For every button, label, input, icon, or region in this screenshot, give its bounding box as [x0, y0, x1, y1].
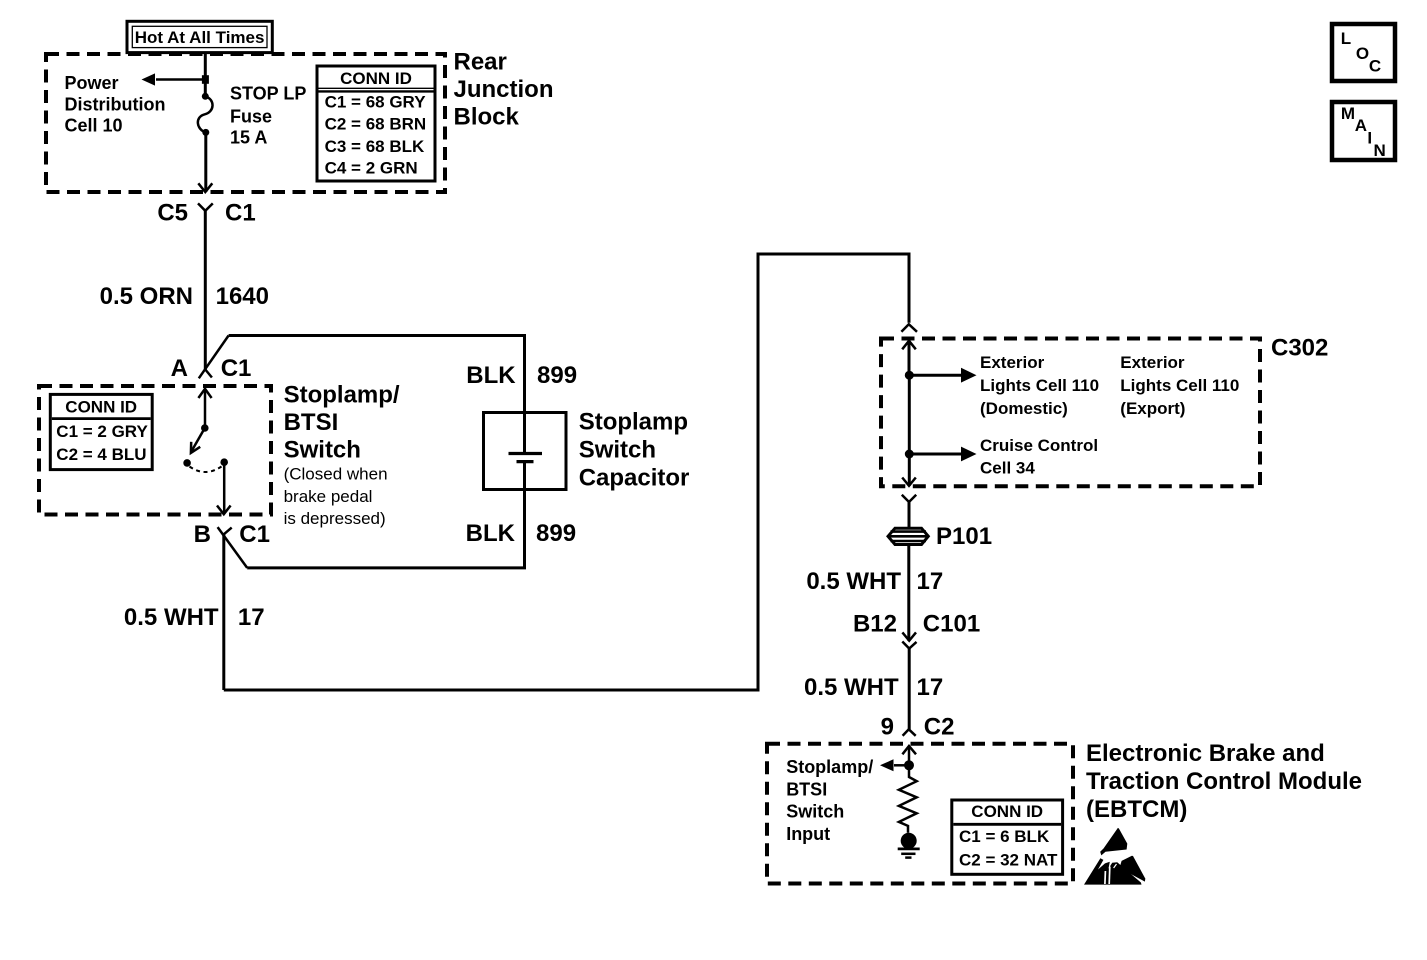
- switch pivot contact: [201, 424, 209, 432]
- wire from Hot At All Times to fuse: [204, 52, 207, 96]
- svg-text:Switch: Switch: [284, 437, 361, 464]
- svg-text:C101: C101: [923, 611, 980, 638]
- label C5: [157, 199, 188, 226]
- Stoplamp/BTSI Switch dashed box: [39, 386, 271, 515]
- svg-text:Stoplamp: Stoplamp: [579, 409, 688, 436]
- wire to C302 bottom with arrow: [902, 454, 916, 486]
- svg-text:M: M: [1341, 104, 1355, 123]
- node junction dot EBTCM: [904, 760, 914, 770]
- label 9: [881, 713, 894, 740]
- svg-text:brake pedal: brake pedal: [284, 487, 373, 506]
- Stoplamp Switch Capacitor label: [579, 409, 690, 492]
- CONN ID table switch: [50, 394, 152, 469]
- wire C101 to EBTCM: [908, 649, 911, 730]
- svg-text:Capacitor: Capacitor: [579, 465, 690, 492]
- wire label 0.5 ORN 1640: [100, 283, 269, 310]
- wire B down, circuit 17: [222, 534, 225, 690]
- STOP LP Fuse 15 A label: [230, 84, 306, 148]
- svg-text:15 A: 15 A: [230, 128, 267, 148]
- svg-text:Stoplamp/: Stoplamp/: [786, 757, 873, 777]
- svg-text:899: 899: [537, 362, 577, 389]
- wire branch to capacitor top: [229, 336, 525, 453]
- svg-text:9: 9: [881, 713, 894, 740]
- connector B12/C101 symbol: [902, 632, 916, 648]
- svg-text:C: C: [1369, 57, 1381, 76]
- fuse STOP LP 15 A: [198, 93, 213, 136]
- svg-text:BTSI: BTSI: [786, 779, 827, 799]
- svg-text:BLK: BLK: [466, 520, 516, 547]
- svg-text:BTSI: BTSI: [284, 409, 339, 436]
- label C1: [225, 199, 256, 226]
- svg-text:Lights Cell 110: Lights Cell 110: [1120, 376, 1239, 395]
- grommet P101: [888, 528, 928, 544]
- Rear Junction Block label: [454, 49, 554, 131]
- svg-text:C3 = 68 BLK: C3 = 68 BLK: [325, 137, 425, 156]
- label C2: [924, 713, 955, 740]
- svg-text:Cell 10: Cell 10: [65, 116, 123, 136]
- svg-text:I: I: [1367, 129, 1372, 148]
- node junction to Power Distribution: [202, 75, 209, 84]
- MAIN reference box: [1332, 102, 1395, 160]
- svg-text:C2 = 4 BLU: C2 = 4 BLU: [56, 445, 146, 464]
- Stoplamp/BTSI Switch label: [284, 382, 400, 464]
- wire bottom run to C302: [224, 254, 909, 690]
- svg-text:Exterior: Exterior: [1120, 353, 1185, 372]
- svg-text:(Domestic): (Domestic): [980, 399, 1068, 418]
- svg-text:1640: 1640: [216, 283, 269, 310]
- svg-text:Rear: Rear: [454, 49, 507, 76]
- switch travel dashed arc: [190, 467, 222, 473]
- svg-text:C1 = 6 BLK: C1 = 6 BLK: [959, 827, 1050, 846]
- node junction dot 2: [905, 450, 914, 459]
- svg-text:STOP LP: STOP LP: [230, 84, 306, 104]
- svg-text:0.5 WHT: 0.5 WHT: [124, 604, 219, 631]
- svg-text:CONN ID: CONN ID: [340, 69, 412, 88]
- Exterior Lights Domestic label: [980, 353, 1099, 418]
- svg-text:Hot At All Times: Hot At All Times: [135, 28, 265, 47]
- wire label BLK 899 lower: [466, 520, 576, 547]
- svg-text:0.5 WHT: 0.5 WHT: [804, 674, 899, 701]
- Cruise Control label: [980, 436, 1098, 478]
- label C302: [1271, 335, 1328, 362]
- svg-text:Input: Input: [786, 824, 830, 844]
- svg-text:(Closed when: (Closed when: [284, 465, 388, 484]
- connector C5/C1 Y symbol: [198, 203, 213, 210]
- arrow into EBTCM: [902, 746, 916, 765]
- connector B/C1 symbol: [218, 527, 248, 568]
- arrow to Exterior Lights: [909, 368, 976, 383]
- node Hot At All Times box: [127, 21, 272, 52]
- svg-text:N: N: [1374, 141, 1386, 160]
- wire P101 to C101: [907, 545, 910, 641]
- svg-text:BLK: BLK: [466, 362, 516, 389]
- svg-text:CONN ID: CONN ID: [65, 398, 137, 417]
- svg-text:17: 17: [238, 604, 265, 631]
- svg-text:Traction Control Module: Traction Control Module: [1086, 768, 1362, 795]
- svg-text:B: B: [194, 521, 211, 548]
- svg-text:CONN ID: CONN ID: [971, 802, 1043, 821]
- resistor pull-up: [899, 765, 917, 833]
- arrow into C302: [902, 341, 916, 375]
- svg-text:Block: Block: [454, 104, 520, 131]
- svg-text:C1 = 2 GRY: C1 = 2 GRY: [56, 422, 148, 441]
- svg-text:Switch: Switch: [579, 437, 656, 464]
- svg-text:C1: C1: [239, 521, 270, 548]
- svg-text:A: A: [171, 355, 188, 382]
- label B: [194, 521, 211, 548]
- connector Y below C302: [902, 495, 916, 528]
- svg-text:C1: C1: [225, 199, 256, 226]
- switch blade with arrow: [191, 428, 205, 453]
- svg-text:17: 17: [917, 568, 944, 595]
- svg-text:Electronic Brake and: Electronic Brake and: [1086, 740, 1325, 767]
- svg-text:Distribution: Distribution: [65, 94, 166, 114]
- svg-text:C302: C302: [1271, 335, 1328, 362]
- label C101: [923, 611, 980, 638]
- EBTCM dashed box: [767, 744, 1073, 884]
- wire between dots: [908, 375, 911, 454]
- connector A/C1 symbol: [199, 336, 229, 379]
- capacitor C plates: [509, 454, 543, 462]
- ESD sensitive symbol: [1084, 828, 1145, 885]
- svg-text:Lights Cell 110: Lights Cell 110: [980, 376, 1099, 395]
- svg-text:(EBTCM): (EBTCM): [1086, 796, 1187, 823]
- wire label 0.5 WHT 17 left: [124, 604, 265, 631]
- svg-text:P101: P101: [936, 523, 992, 550]
- svg-text:C1 = 68 GRY: C1 = 68 GRY: [325, 92, 427, 111]
- svg-text:Junction: Junction: [454, 76, 554, 103]
- svg-text:Power: Power: [65, 73, 119, 93]
- CONN ID table Rear Junction Block: [317, 66, 435, 181]
- Rear Junction Block dashed box: [46, 54, 445, 192]
- wire label 0.5 WHT 17 right lower: [804, 674, 943, 701]
- svg-text:17: 17: [917, 674, 944, 701]
- switch output wire with arrow: [217, 462, 231, 514]
- svg-text:Fuse: Fuse: [230, 107, 272, 127]
- capacitor box: [484, 413, 567, 490]
- svg-text:Exterior: Exterior: [980, 353, 1045, 372]
- svg-text:C2: C2: [924, 713, 955, 740]
- label P101: [936, 523, 992, 550]
- arrow to Power Distribution Cell 10: [142, 73, 206, 85]
- svg-text:Cell 34: Cell 34: [980, 459, 1035, 478]
- C302 dashed box: [881, 339, 1260, 487]
- closed-when note: [284, 465, 388, 529]
- ground symbol: [898, 849, 920, 858]
- Exterior Lights Export label: [1120, 353, 1239, 418]
- connector chevron at C302: [901, 324, 917, 332]
- wire fuse to C5 with arrow: [198, 132, 212, 192]
- svg-text:A: A: [1355, 116, 1367, 135]
- svg-text:(Export): (Export): [1120, 399, 1185, 418]
- arrow to Cruise Control: [909, 447, 976, 462]
- node junction dot 1: [905, 371, 914, 380]
- label A: [171, 355, 188, 382]
- svg-text:899: 899: [536, 520, 576, 547]
- switch right contact: [220, 458, 228, 466]
- svg-text:Stoplamp/: Stoplamp/: [284, 382, 400, 409]
- svg-text:C4 = 2 GRN: C4 = 2 GRN: [325, 159, 418, 178]
- label C1 at B: [239, 521, 270, 548]
- svg-text:Switch: Switch: [786, 802, 844, 822]
- connector 9/C2 symbol: [903, 729, 916, 736]
- svg-text:B12: B12: [853, 611, 897, 638]
- svg-text:C2 = 68 BRN: C2 = 68 BRN: [325, 115, 427, 134]
- svg-text:0.5 WHT: 0.5 WHT: [806, 568, 901, 595]
- svg-text:C1: C1: [221, 355, 252, 382]
- svg-text:C5: C5: [157, 199, 188, 226]
- wire label BLK 899 upper: [466, 362, 577, 389]
- CONN ID table EBTCM: [952, 800, 1063, 874]
- svg-text:0.5 ORN: 0.5 ORN: [100, 283, 193, 310]
- switch input arrow: [198, 389, 211, 428]
- Power Distribution Cell 10 label: [65, 73, 166, 136]
- switch left contact: [183, 459, 191, 467]
- label B12: [853, 611, 897, 638]
- EBTCM label: [1086, 740, 1362, 823]
- svg-text:Cruise Control: Cruise Control: [980, 436, 1098, 455]
- ground ball: [901, 833, 917, 849]
- svg-text:C2 = 32 NAT: C2 = 32 NAT: [959, 850, 1058, 869]
- wire capacitor bottom to B: [247, 462, 524, 568]
- label C1 at A: [221, 355, 252, 382]
- svg-text:is depressed): is depressed): [284, 509, 386, 528]
- wire C5 to A, circuit 1640: [204, 211, 207, 370]
- Stoplamp BTSI Switch Input label: [786, 757, 873, 844]
- LOC reference box: [1332, 24, 1395, 81]
- arrow to Stoplamp input label: [880, 759, 909, 771]
- wire label 0.5 WHT 17 right upper: [806, 568, 943, 595]
- svg-text:O: O: [1356, 44, 1369, 63]
- svg-text:L: L: [1341, 29, 1351, 48]
